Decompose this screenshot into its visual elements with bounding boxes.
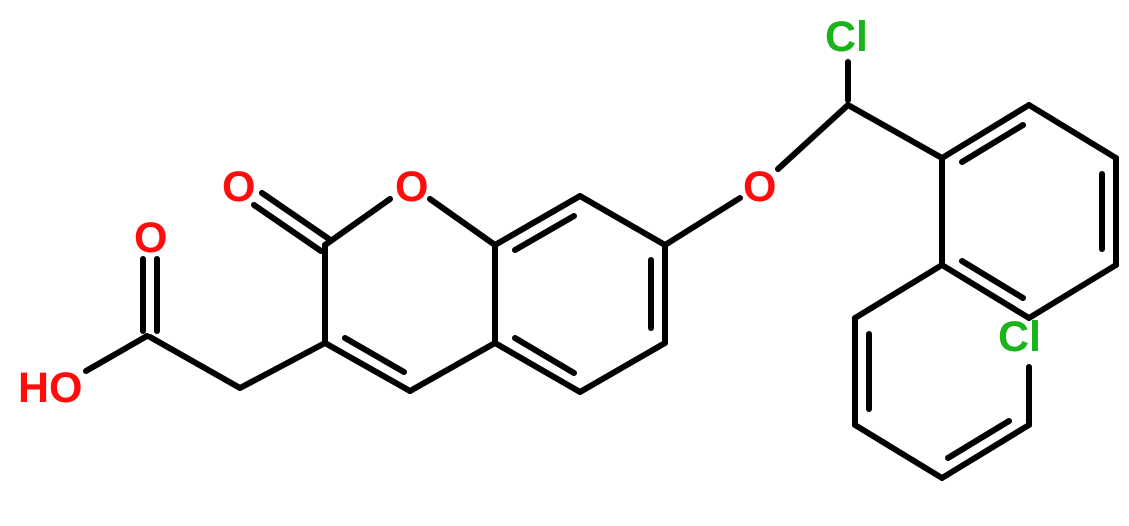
svg-text:Cl: Cl	[825, 13, 868, 61]
ring B bond 7-8	[852, 318, 858, 425]
bond C7 to ether O	[665, 198, 740, 245]
bond ring O to C8a	[430, 199, 495, 245]
inner line C8a=C8	[515, 216, 574, 250]
bond C3-C4	[325, 343, 410, 391]
bond C4-C4a	[410, 343, 495, 391]
bond CH to ring A C1	[848, 105, 942, 158]
svg-text:HO: HO	[18, 364, 83, 412]
carboxyl C=O double bond	[140, 259, 146, 331]
bond C2-C3	[322, 245, 328, 343]
bond C8-C7	[580, 196, 665, 245]
inner line ring B 7=8	[866, 334, 872, 409]
ring B bond 9-10	[942, 425, 1029, 478]
bond ether O to CH	[778, 105, 848, 169]
ring B bond 8-9	[855, 425, 942, 478]
inner line C7=C6	[648, 260, 654, 328]
ring B bond 10-5 clipped at Cl2 label	[1026, 367, 1032, 425]
svg-text:Cl: Cl	[998, 313, 1041, 361]
svg-text:O: O	[134, 214, 167, 262]
bond C7-C6	[662, 245, 668, 343]
ring B bond 6-7	[855, 265, 942, 318]
svg-text:O: O	[743, 163, 776, 211]
ring A bond 5-6 fusion	[942, 265, 1029, 318]
inner line ring B 9=10	[948, 421, 1009, 458]
bond C5-C4a	[495, 343, 580, 392]
ring A bond 6-1	[939, 158, 945, 265]
bond C4a-C8a	[492, 245, 498, 343]
inner line ring A 5=6	[962, 261, 1023, 298]
inner line C5=C4a	[515, 338, 574, 373]
svg-text:O: O	[222, 163, 255, 211]
bond CH to Cl1	[845, 62, 851, 100]
inner line ring A 1=2	[962, 125, 1023, 162]
wire CH2 to ring C3	[240, 343, 325, 388]
lactone C2=O exocyclic double bond	[262, 193, 329, 239]
wire acid C to CH2	[150, 337, 240, 388]
ring A bond 2-3	[1029, 105, 1116, 158]
bond C6-C5	[580, 343, 665, 392]
inner line ring A 3=4	[1099, 174, 1105, 249]
inner line C3=C4	[345, 338, 404, 372]
bond C8a-C8	[495, 196, 580, 245]
wire HO to acid carbon	[86, 336, 147, 371]
bond C2 to ring O	[325, 199, 390, 245]
ring A bond 1-2	[942, 105, 1029, 158]
svg-text:O: O	[395, 163, 428, 211]
ring A bond 3-4	[1113, 158, 1119, 265]
ring A bond 4-5	[1029, 265, 1116, 318]
